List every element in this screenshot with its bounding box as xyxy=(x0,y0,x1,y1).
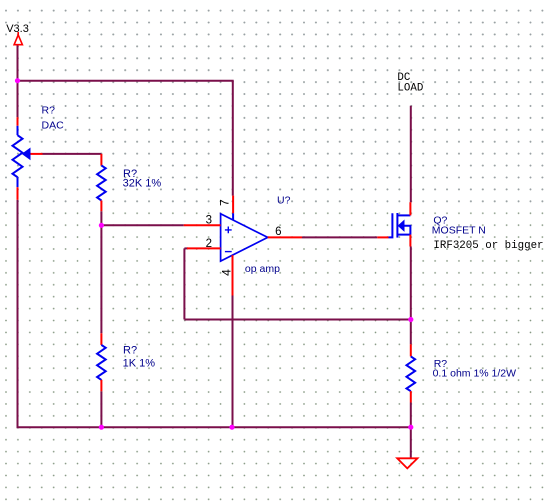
svg-text:U?: U? xyxy=(277,195,291,207)
wire V3.3 stem xyxy=(17,46,19,118)
potentiometer R? DAC xyxy=(13,117,43,200)
junction pin4 to rail xyxy=(229,425,234,430)
wire wiper horizontal xyxy=(43,153,102,155)
junction node V3.3 xyxy=(15,78,20,83)
svg-text:R?: R? xyxy=(123,344,137,356)
pin 3 lead xyxy=(184,224,221,226)
junction 1K to rail xyxy=(99,425,104,430)
svg-text:3: 3 xyxy=(206,214,212,226)
op-amp U? xyxy=(221,213,268,261)
svg-text:32K 1%: 32K 1% xyxy=(123,177,162,189)
wire op-amp pin 4 down to rail xyxy=(232,296,234,428)
svg-text:DAC: DAC xyxy=(42,120,65,132)
wire MOSFET source down through node to shunt xyxy=(410,247,412,345)
junction node A (divider tap) xyxy=(99,223,104,228)
pin 2 lead xyxy=(187,247,221,249)
svg-text:0.1 ohm 1% 1/2W: 0.1 ohm 1% 1/2W xyxy=(433,367,517,379)
svg-text:6: 6 xyxy=(275,226,281,238)
wire op-amp output middle segment xyxy=(302,236,377,238)
svg-text:op amp: op amp xyxy=(245,263,280,275)
wire node A down to 1K top xyxy=(100,225,102,333)
wire feedback vertical xyxy=(183,248,185,319)
svg-text:4: 4 xyxy=(220,269,234,276)
wire feedback horizontal to source node xyxy=(184,319,410,321)
wire vertical drop to op-amp pin 7 xyxy=(232,81,234,196)
wire pot bottom to ground rail xyxy=(17,200,19,427)
svg-text:7: 7 xyxy=(218,199,232,206)
wire node A to op-amp pin 3 xyxy=(101,224,183,226)
svg-text:R?: R? xyxy=(42,105,56,117)
junction shunt to rail xyxy=(408,425,413,430)
svg-text:MOSFET N: MOSFET N xyxy=(432,225,486,237)
resistor R? 32K 1% xyxy=(97,154,106,211)
svg-text:IRF3205 or bigger: IRF3205 or bigger xyxy=(433,240,543,252)
wire rail to ground symbol xyxy=(410,427,412,458)
wire inverting input horizontal stub xyxy=(184,247,188,249)
wire 1K bottom to rail xyxy=(100,391,102,427)
pin 7 lead xyxy=(232,196,234,214)
svg-text:2: 2 xyxy=(206,238,212,250)
resistor R? 0.1 ohm shunt xyxy=(407,344,416,402)
wire DC LOAD down to MOSFET drain xyxy=(410,106,412,202)
svg-text:1K 1%: 1K 1% xyxy=(123,357,156,369)
svg-text:LOAD: LOAD xyxy=(397,82,423,94)
wire top horizontal from V3.3 node to op-amp V+ column xyxy=(18,80,234,82)
svg-text:V3.3: V3.3 xyxy=(6,23,29,35)
resistor R? 1K 1% xyxy=(97,333,106,391)
junction node source/feedback xyxy=(408,317,413,322)
transistor Q? MOSFET N xyxy=(377,202,410,246)
wire bottom ground rail xyxy=(17,426,411,428)
wire shunt bottom to rail xyxy=(410,403,412,428)
wire 32K bottom stub to node A xyxy=(100,211,102,225)
ground xyxy=(397,458,417,468)
pin 6 lead xyxy=(268,236,302,238)
pin 4 lead xyxy=(232,255,234,295)
power symbol V3.3 xyxy=(14,32,22,45)
